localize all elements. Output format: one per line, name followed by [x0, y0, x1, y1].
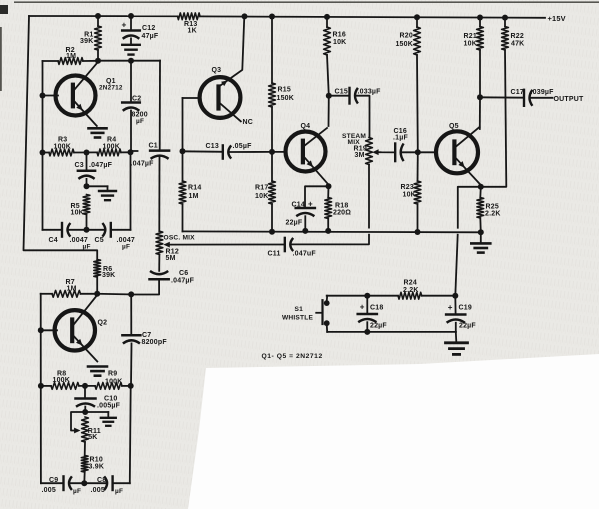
wire Q3 base vertical: [182, 98, 184, 151]
label C2: [132, 96, 148, 126]
svg-text:39K: 39K: [102, 272, 115, 279]
svg-text:.033µF: .033µF: [358, 88, 382, 95]
junction dot C18 bottom: [364, 329, 370, 335]
resistor R14: [179, 181, 186, 204]
transistor Q2: [55, 296, 98, 362]
label R17: [255, 184, 268, 200]
wire C15 left lead: [329, 95, 350, 97]
label OSC MIX: [164, 235, 196, 242]
svg-text:100K: 100K: [53, 377, 71, 384]
label C13: [206, 143, 253, 150]
label C19: [448, 303, 477, 330]
wire C12 top lead: [130, 16, 132, 30]
wire R11 wiper loop: [71, 412, 85, 431]
label OUTPUT: [554, 96, 585, 103]
label R25: [485, 204, 501, 218]
resistor R24: [398, 292, 422, 299]
svg-text:µF: µF: [83, 243, 91, 250]
label Q1-Q5 footnote: [262, 353, 323, 360]
svg-text:2.2K: 2.2K: [403, 287, 419, 294]
svg-text:Q1- Q5 = 2N2712: Q1- Q5 = 2N2712: [262, 353, 323, 360]
junction dot Q5 collector: [477, 94, 483, 100]
svg-text:1M: 1M: [66, 53, 76, 60]
wire R2 left lead: [43, 60, 59, 62]
label C12 plus: [122, 19, 127, 29]
label R10: [89, 456, 105, 470]
wire C10 bottom lead: [84, 407, 86, 412]
label R15: [277, 86, 295, 102]
label C12: [142, 25, 159, 40]
capacitor C2: [122, 103, 140, 111]
label R16: [333, 31, 347, 46]
svg-text:Q3: Q3: [212, 67, 222, 74]
label C18: [360, 303, 388, 330]
label R2: [66, 47, 77, 60]
capacitor C12: [122, 31, 140, 39]
svg-text:OSC. MIX: OSC. MIX: [164, 235, 196, 242]
resistor R6: [94, 260, 101, 278]
label R18: [333, 202, 351, 216]
junction dot Q2 base: [38, 327, 44, 333]
wire Q1 bottom bus: [43, 229, 131, 231]
junction dots node B: [95, 58, 134, 64]
label C1: [131, 142, 158, 167]
ground at OSC MIX bus: [471, 232, 490, 252]
svg-text:C8: C8: [97, 477, 106, 484]
arrow R19 wiper: [372, 149, 378, 155]
wire Q5 emitter to whistle (crosses bus): [455, 187, 481, 296]
svg-text:8200pF: 8200pF: [142, 339, 168, 346]
wire whistle top: [327, 295, 456, 297]
wire left +15V feed to R6: [24, 16, 98, 260]
label C11: [268, 250, 317, 257]
wire Q2 collector node to C7: [97, 293, 131, 296]
junction dot node A: [415, 149, 421, 155]
svg-text:OUTPUT: OUTPUT: [554, 96, 585, 103]
svg-text:1K: 1K: [188, 27, 197, 34]
svg-text:C17: C17: [511, 89, 524, 96]
wire C7 leads: [130, 294, 133, 386]
wire C19 top lead: [454, 296, 456, 314]
svg-text:100K: 100K: [103, 143, 121, 150]
svg-text:µF: µF: [136, 118, 144, 125]
svg-text:C5: C5: [95, 237, 104, 244]
capacitor C3: [78, 171, 95, 179]
wire R14 leads: [182, 151, 184, 231]
svg-text:C2: C2: [132, 96, 141, 103]
wire +15V rail: [29, 16, 545, 18]
svg-text:C10: C10: [104, 395, 117, 402]
svg-text:5K: 5K: [88, 434, 97, 441]
svg-text:.047µF: .047µF: [171, 278, 195, 285]
capacitor C9: [64, 476, 72, 490]
junction dots on +15V rail: [95, 13, 508, 21]
svg-text:S1: S1: [295, 306, 304, 313]
label C9: [42, 477, 82, 495]
svg-text:Q2: Q2: [98, 319, 108, 326]
capacitor C19: [446, 315, 465, 323]
wire C19 bottom lead: [455, 323, 457, 332]
transistor Q3: [200, 77, 241, 121]
svg-text:µF: µF: [122, 243, 130, 250]
svg-text:C14: C14: [292, 201, 305, 208]
wire C12 to ground: [130, 38, 132, 44]
svg-text:C15: C15: [335, 88, 348, 95]
svg-text:2.2K: 2.2K: [485, 211, 501, 218]
svg-text:R18: R18: [335, 202, 348, 209]
wire Q5 collector vertical: [479, 97, 481, 129]
svg-text:C12: C12: [142, 25, 155, 32]
wire Q2 base lead: [41, 329, 57, 331]
label R23: [401, 184, 416, 199]
label Q4: [301, 123, 311, 130]
wire R6 bottom lead: [96, 277, 98, 294]
svg-text:Q5: Q5: [449, 123, 459, 130]
wire mid bus right (C13 to R17 node): [229, 151, 272, 153]
resistor R7: [52, 290, 81, 297]
label C10: [97, 395, 121, 409]
label C16: [393, 128, 408, 142]
ground at C10 node: [101, 418, 116, 426]
svg-text:.05µF: .05µF: [233, 143, 253, 150]
resistor R19 (pot): [366, 138, 373, 165]
svg-text:C11: C11: [268, 250, 281, 257]
wire Q2 box right vertical: [129, 386, 132, 483]
junction dots R8/R9 bus: [38, 383, 134, 389]
wire R23 leads: [417, 152, 419, 232]
svg-text:.039µF: .039µF: [531, 89, 555, 96]
svg-text:1M: 1M: [189, 193, 199, 200]
capacitor C7: [122, 335, 140, 343]
label NC: [243, 119, 254, 126]
label R5: [71, 203, 84, 217]
resistor R3: [49, 149, 74, 156]
resistor R1: [95, 26, 102, 50]
wire mid bus left (Q3 base/R14/C13): [183, 150, 223, 153]
svg-text:C19: C19: [459, 305, 472, 312]
svg-text:3M: 3M: [355, 152, 365, 159]
ground under C12: [122, 45, 140, 55]
ground at Q1 emitter: [89, 128, 107, 137]
svg-text:+15V: +15V: [548, 14, 566, 23]
svg-text:R23: R23: [401, 184, 414, 191]
svg-text:C7: C7: [142, 332, 151, 339]
svg-text:100K: 100K: [54, 143, 72, 150]
transistor Q5: [436, 127, 480, 184]
svg-text:NC: NC: [243, 119, 254, 126]
wire Q1 box left vertical: [42, 153, 44, 230]
wire R1 bottom lead: [97, 50, 99, 61]
switch S1: [316, 296, 329, 332]
svg-text:R22: R22: [511, 33, 524, 40]
svg-text:39K: 39K: [80, 38, 93, 45]
wire Q1 box right vertical: [130, 152, 132, 230]
resistor R11 (pot): [82, 417, 89, 442]
wire C6 bottom lead: [131, 279, 159, 294]
resistor R12 (pot): [156, 231, 163, 254]
svg-text:R10: R10: [90, 456, 103, 463]
resistor R16: [324, 27, 331, 55]
wire Q2 bottom bus: [41, 482, 130, 484]
transistor Q1: [56, 63, 98, 127]
ground at node D: [99, 191, 116, 200]
svg-text:220Ω: 220Ω: [333, 210, 351, 217]
wire R5 bottom lead: [86, 215, 88, 230]
capacitor C13: [223, 145, 231, 158]
resistor R22: [502, 27, 509, 51]
wire R21 leads: [479, 18, 481, 98]
label R24: [403, 279, 419, 294]
junction dot Q4 emitter: [326, 183, 332, 189]
label R6: [102, 266, 115, 279]
junction dots node C: [40, 149, 134, 155]
junction dot node D: [84, 183, 90, 189]
svg-text:3.9K: 3.9K: [89, 463, 105, 470]
wire R17 leads: [271, 152, 273, 232]
wire R1 top lead: [97, 16, 99, 26]
wire C2 bottom lead: [130, 111, 132, 153]
junction dot mid bus left: [180, 148, 186, 154]
svg-text:R14: R14: [188, 184, 201, 191]
label R4: [103, 137, 121, 151]
svg-text:+: +: [360, 303, 365, 312]
wire C3 top lead: [86, 153, 88, 170]
capacitor C14: [296, 208, 315, 216]
resistor R9: [95, 383, 122, 390]
label C6: [171, 270, 195, 285]
junction dot C7 top: [128, 291, 134, 297]
label Q2: [98, 319, 108, 326]
wire R25 leads: [479, 187, 482, 233]
svg-text:22µF: 22µF: [459, 323, 476, 330]
label R3: [54, 137, 72, 151]
svg-text:WHISTLE: WHISTLE: [282, 314, 313, 321]
capacitor C18: [358, 314, 377, 322]
wire Q3 emitter to rail: [219, 16, 244, 86]
wire Q4 base lead: [272, 151, 287, 153]
svg-text:+: +: [122, 19, 127, 29]
wire Q1 base net vertical: [42, 61, 44, 153]
label R9: [105, 371, 123, 386]
resistor R21: [477, 27, 484, 51]
svg-text:R20: R20: [400, 32, 413, 39]
wire C15 to R19 top: [355, 96, 369, 138]
arrow R11 wiper: [74, 428, 80, 434]
svg-text:+: +: [308, 200, 313, 209]
wire C18 bottom lead: [366, 322, 368, 332]
resistor R23: [414, 181, 421, 204]
svg-text:µF: µF: [73, 488, 81, 495]
wire C11 to R12 wiper: [167, 244, 285, 246]
wire C16 left lead to wiper arrow: [377, 151, 396, 153]
label +15V: [548, 14, 566, 23]
svg-text:C3: C3: [75, 162, 84, 169]
junction dot R10 bottom: [81, 480, 87, 486]
wire C2 top lead: [130, 61, 132, 102]
junction dot Q2 collector node: [94, 291, 100, 297]
wire Q3 base lead: [183, 97, 201, 99]
label C3: [75, 162, 113, 169]
svg-text:R15: R15: [278, 86, 291, 93]
svg-text:R9: R9: [108, 371, 117, 378]
capacitor C4: [62, 223, 70, 237]
resistor R2: [58, 58, 83, 65]
label R7: [66, 279, 77, 293]
resistor R25: [477, 198, 484, 219]
svg-text:150K: 150K: [395, 41, 413, 48]
label C15: [335, 88, 382, 95]
wire R7 left lead: [41, 293, 52, 295]
wire C1 stub from node C: [131, 150, 138, 152]
ground at Q2 emitter: [88, 367, 107, 376]
wire C17 to output: [530, 97, 553, 99]
label C5: [95, 237, 136, 251]
label R1: [80, 31, 93, 45]
wire R2 right lead: [83, 60, 98, 62]
resistor R17: [269, 181, 276, 204]
capacitor C16: [395, 144, 403, 162]
svg-text:22µF: 22µF: [370, 322, 387, 329]
wire C10 node to ground: [85, 412, 108, 417]
label R22: [511, 33, 525, 48]
wire node D to ground: [87, 186, 108, 190]
capacitor C15: [350, 88, 358, 104]
svg-text:100K: 100K: [105, 378, 123, 385]
svg-text:C6: C6: [179, 270, 188, 277]
label Q3: [212, 67, 222, 74]
svg-text:5M: 5M: [166, 255, 176, 262]
wire R15 bottom lead: [271, 107, 273, 151]
wire R10 bottom lead: [83, 472, 85, 483]
svg-text:R21: R21: [464, 33, 477, 40]
svg-text:10K: 10K: [403, 191, 416, 198]
wire Q1 base lead: [43, 95, 59, 97]
wire C16 right lead: [401, 151, 418, 153]
wire whistle bottom: [327, 331, 456, 333]
svg-text:10K: 10K: [333, 39, 346, 46]
wire R11 to R10: [84, 442, 86, 456]
resistor R5: [83, 195, 90, 215]
label R14: [188, 184, 201, 200]
svg-text:C18: C18: [370, 304, 383, 311]
svg-text:R16: R16: [333, 31, 346, 38]
arrow R12 wiper: [163, 242, 169, 248]
wire R19 bottom (crosses bus): [291, 165, 369, 245]
resistor R18: [325, 198, 332, 219]
svg-text:Q4: Q4: [301, 123, 311, 130]
wire C1 bottom lead: [158, 156, 160, 231]
label C4: [49, 237, 91, 251]
wire Q5 base lead: [418, 151, 436, 153]
svg-text:10K: 10K: [71, 209, 84, 216]
svg-text:.1µF: .1µF: [393, 135, 408, 142]
wire Q5 collector to C17: [480, 96, 524, 98]
resistor R4: [97, 149, 121, 156]
wire R15 top lead: [271, 17, 273, 84]
svg-text:10K: 10K: [255, 193, 268, 200]
svg-text:10K: 10K: [464, 40, 477, 47]
svg-text:C13: C13: [206, 143, 219, 150]
label S1 WHISTLE: [282, 306, 313, 321]
wire R7 right lead: [81, 293, 98, 295]
svg-text:.005: .005: [42, 487, 56, 494]
wire whistle ground stem: [455, 332, 458, 342]
wire C1 top lead: [159, 61, 161, 150]
capacitor C5: [102, 223, 110, 237]
label Q1: [99, 78, 123, 92]
junction dot Q1 base: [40, 93, 46, 99]
svg-text:47K: 47K: [511, 40, 524, 47]
junction dot mid bus right: [269, 149, 275, 155]
label C8: [91, 477, 124, 495]
capacitor C6: [150, 271, 169, 279]
resistor R13: [178, 13, 201, 20]
junction dots whistle top: [364, 293, 458, 299]
transistor Q4: [286, 128, 328, 184]
capacitor C1: [150, 151, 169, 159]
label C17: [511, 89, 555, 96]
wire C3 bottom lead: [86, 179, 88, 186]
wire node C bus: [43, 151, 131, 153]
svg-text:C1: C1: [149, 142, 158, 149]
wire Q2 box left vertical: [40, 294, 42, 483]
label Q5: [449, 123, 459, 130]
capacitor C17: [524, 90, 532, 106]
svg-text:+: +: [448, 303, 453, 312]
wire R22 top lead: [504, 18, 506, 27]
wire C18 top lead: [366, 296, 368, 313]
wire Q4 collector vertical: [328, 96, 330, 126]
svg-text:2N2712: 2N2712: [99, 84, 123, 91]
svg-text:.047µF: .047µF: [89, 162, 113, 169]
wire R18 leads: [327, 186, 329, 231]
resistor R15: [269, 83, 276, 107]
wire OSC MIX bus: [183, 230, 481, 233]
capacitor C11: [285, 238, 293, 251]
label R13: [184, 21, 197, 34]
junction dot C4/C5 bus: [84, 227, 90, 233]
label R12: [166, 248, 179, 262]
svg-text:.005µF: .005µF: [97, 402, 121, 409]
label STEAM MIX R19: [342, 133, 367, 159]
wire R20 leads: [416, 17, 419, 152]
svg-text:R17: R17: [255, 184, 268, 191]
wire R8/R9 bus: [41, 385, 131, 387]
wire C10 top lead: [84, 386, 86, 398]
label R20: [395, 32, 413, 48]
label R8: [53, 370, 71, 384]
label R11: [88, 428, 101, 441]
wire R12 to C6: [158, 255, 160, 271]
svg-text:R24: R24: [404, 279, 417, 286]
junction dot Q4 collector: [326, 93, 332, 99]
junction dots OSC MIX bus: [269, 228, 484, 235]
label C7: [142, 332, 168, 346]
label R21: [464, 33, 477, 48]
wire C14 bottom lead: [304, 216, 306, 231]
wire node B (R1/R2/C2/C1): [98, 60, 160, 62]
svg-text:C9: C9: [49, 477, 58, 484]
resistor R8: [51, 383, 79, 390]
wire R22 bottom to Q5 emitter: [481, 50, 507, 187]
svg-text:47µF: 47µF: [142, 33, 159, 40]
resistor R20: [414, 27, 421, 55]
svg-text:µF: µF: [115, 488, 123, 495]
capacitor C10: [76, 399, 96, 407]
svg-text:.047µF: .047µF: [131, 160, 155, 167]
junction dot Q5 emitter: [478, 184, 484, 190]
ground at whistle: [446, 343, 468, 355]
